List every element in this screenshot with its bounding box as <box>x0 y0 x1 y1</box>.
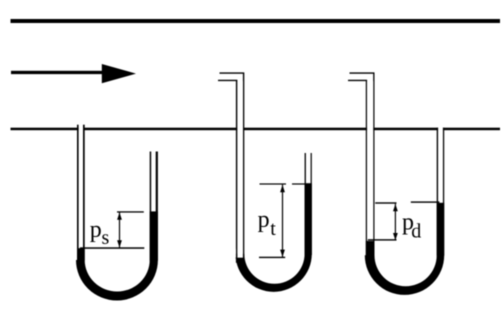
white patch left of pitot wall over arc tip <box>234 249 236 257</box>
dimension top line seg1 <box>375 202 396 203</box>
dimension top line seg2 <box>411 201 440 202</box>
pipe top wall <box>11 19 501 23</box>
dimension arrow up <box>393 204 398 211</box>
dimension top line <box>117 211 144 212</box>
liquid fill right tube <box>150 211 158 260</box>
dimension bottom line <box>259 257 285 258</box>
liquid fill left (pitot) tube <box>236 258 244 263</box>
pitot tube elbow (outer) <box>350 72 375 258</box>
dimension arrow up <box>117 213 122 220</box>
svg-text:t: t <box>270 218 276 240</box>
right tube walls <box>437 128 439 256</box>
dimension bottom line <box>368 239 397 240</box>
liquid fill right tube <box>437 203 445 256</box>
pitot tube elbow (inner) <box>218 80 237 258</box>
svg-text:s: s <box>102 227 110 249</box>
liquid fill left tube <box>77 248 85 261</box>
dimension arrow up <box>280 185 285 192</box>
U-bend 2 <box>236 254 312 292</box>
white interior of right tube through wall <box>438 128 443 203</box>
left tube walls <box>77 125 79 260</box>
dimension vertical line <box>395 204 396 241</box>
liquid fill left (pitot) tube <box>366 241 375 256</box>
liquid fill right tube <box>305 183 312 255</box>
svg-text:d: d <box>411 221 421 243</box>
dimension vertical line <box>119 212 120 248</box>
dimension arrow down <box>393 233 398 240</box>
white interior of pitot through wall <box>237 81 243 258</box>
dimension bottom line <box>80 247 144 249</box>
right tube walls <box>305 153 306 254</box>
dimension arrow down <box>117 240 122 247</box>
dimension top line seg2 <box>292 183 306 184</box>
pitot tube elbow (outer) <box>220 72 245 258</box>
pitot tube elbow (inner) <box>348 80 367 258</box>
U-bend 3 <box>365 255 444 295</box>
right tube walls <box>150 152 152 261</box>
svg-text:p: p <box>258 207 270 233</box>
svg-text:p: p <box>90 217 102 243</box>
pipe bottom wall (segments with tube gaps) <box>11 128 79 131</box>
flow arrow <box>11 64 136 83</box>
U-bend 1 <box>76 260 158 301</box>
dimension vertical line <box>282 185 283 257</box>
white interior of pitot through wall <box>367 81 373 241</box>
dimension arrow down <box>280 250 285 257</box>
dimension top line seg1 <box>260 183 287 184</box>
